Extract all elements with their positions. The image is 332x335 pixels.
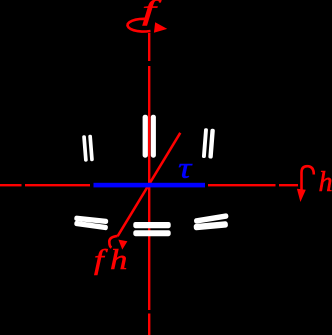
horizontal axis h, right segment 1 xyxy=(208,184,276,186)
diagonal axis fh (red) xyxy=(118,133,181,236)
arrowhead of f rotation arrow xyxy=(154,22,167,33)
arrowhead of fh rotation arrow xyxy=(118,240,127,250)
rotation arrow for f (top ellipse arc) xyxy=(128,19,151,32)
marker pair P4 bottom-left xyxy=(74,215,108,230)
translation bar tau (blue) xyxy=(94,183,206,188)
horizontal axis h, left segment 2 xyxy=(25,184,90,186)
horizontal axis h (red), left segment 1 xyxy=(0,184,22,186)
vertical axis f, middle segment xyxy=(148,66,150,310)
label fh (bottom) xyxy=(94,243,127,276)
label f (top) xyxy=(142,0,162,26)
marker pair P2 top-left xyxy=(82,135,94,162)
marker pair P3 top-right xyxy=(202,128,215,159)
vertical axis f, bottom segment xyxy=(148,314,150,335)
label tau (blue) xyxy=(178,152,192,185)
marker pair P6 bottom-right xyxy=(193,213,228,230)
marker pair P1 top-center (on f axis) xyxy=(143,115,156,158)
rotation arrow for fh (hook near diagonal end) xyxy=(109,236,117,248)
label h (right) xyxy=(319,166,332,197)
arrowhead of h rotation arrow xyxy=(297,189,306,202)
svg-text:h: h xyxy=(110,243,127,276)
marker pair P5 bottom-center (covers f axis) xyxy=(133,222,170,236)
vertical axis f (red), top segment xyxy=(148,33,150,61)
svg-text:τ: τ xyxy=(178,152,192,185)
rotation arrow for h (right loop) xyxy=(302,166,314,191)
horizontal axis h, right segment 2 xyxy=(279,184,298,186)
svg-text:h: h xyxy=(319,166,332,197)
